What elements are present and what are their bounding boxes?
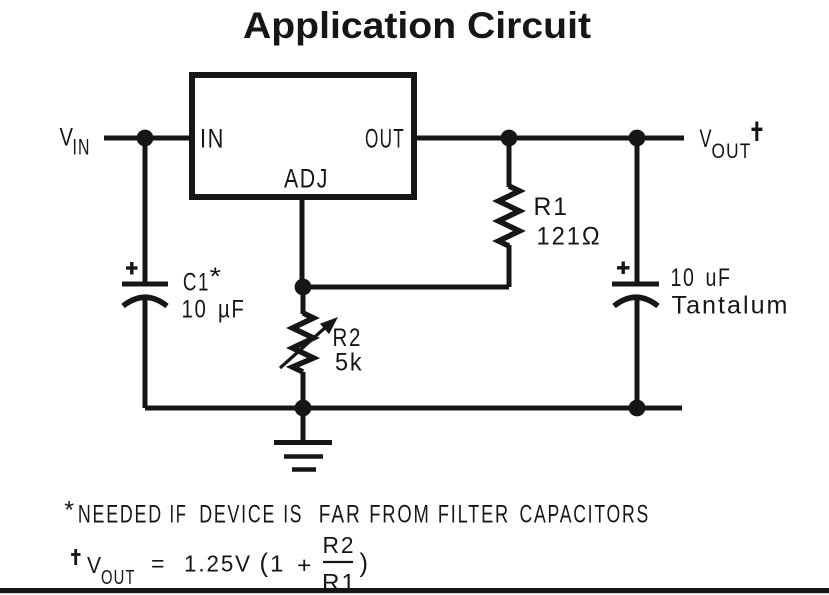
svg-text:R1: R1 bbox=[534, 193, 570, 221]
svg-text:IS: IS bbox=[283, 501, 303, 529]
svg-text:10 µF: 10 µF bbox=[182, 296, 246, 324]
svg-text:ADJ: ADJ bbox=[284, 164, 329, 194]
svg-text:OUT: OUT bbox=[712, 139, 752, 163]
svg-text:=: = bbox=[151, 551, 165, 577]
svg-text:OUT: OUT bbox=[365, 124, 405, 154]
svg-text:1: 1 bbox=[270, 551, 284, 577]
svg-text:DEVICE: DEVICE bbox=[199, 501, 276, 529]
svg-text:Tantalum: Tantalum bbox=[672, 292, 790, 320]
svg-text:FAR: FAR bbox=[319, 501, 362, 529]
svg-text:10 uF: 10 uF bbox=[671, 264, 732, 292]
svg-text:C1: C1 bbox=[183, 269, 210, 297]
svg-text:+: + bbox=[297, 552, 312, 578]
svg-text:V: V bbox=[87, 552, 101, 578]
svg-text:IN: IN bbox=[200, 124, 225, 154]
svg-text:FROM: FROM bbox=[369, 501, 431, 529]
svg-text:OUT: OUT bbox=[101, 566, 136, 589]
svg-text:*: * bbox=[210, 263, 222, 291]
svg-text:NEEDED: NEEDED bbox=[78, 501, 163, 529]
svg-text:CAPACITORS: CAPACITORS bbox=[520, 501, 651, 529]
svg-text:IF: IF bbox=[170, 501, 188, 529]
svg-text:1.25V: 1.25V bbox=[184, 551, 252, 577]
svg-text:*: * bbox=[64, 497, 74, 525]
svg-text:5k: 5k bbox=[335, 349, 364, 377]
svg-text:Application Circuit: Application Circuit bbox=[243, 5, 591, 46]
svg-text:121Ω: 121Ω bbox=[537, 223, 602, 251]
svg-text:(: ( bbox=[260, 550, 269, 578]
svg-text:FILTER: FILTER bbox=[438, 501, 510, 529]
svg-text:V: V bbox=[700, 125, 712, 153]
svg-text:IN: IN bbox=[73, 135, 91, 160]
svg-text:V: V bbox=[60, 124, 74, 152]
svg-text:R2: R2 bbox=[323, 532, 356, 558]
svg-text:): ) bbox=[360, 550, 369, 578]
